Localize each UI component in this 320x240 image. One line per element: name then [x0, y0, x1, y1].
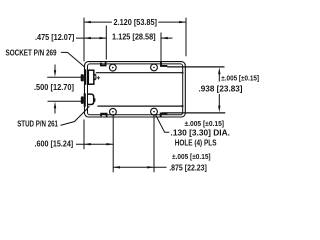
extension line left (x=84) top: [83, 18, 85, 62]
dimension 1.125 right arrow: [161, 37, 173, 39]
dimension .500 down arrow: [54, 65, 56, 77]
hole top-left: [109, 64, 116, 71]
extension line bottom-right hole: [153, 115, 155, 173]
extension line 1.125 right (x=161): [160, 33, 162, 67]
dimension .875 line with arrows: [113, 166, 166, 168]
dimension .938 lower arrow: [218, 94, 220, 112]
extension line .600 left (x=84) bottom: [83, 120, 85, 150]
svg-text:STUD P/N 261: STUD P/N 261: [17, 118, 58, 128]
extension line bottom-left hole: [112, 115, 114, 172]
extension line right (x=186): [185, 18, 187, 57]
leader socket label: [61, 52, 85, 66]
svg-text:±.005 [±0.15]: ±.005 [±0.15]: [172, 152, 211, 161]
dimension 2.120 line: [84, 21, 186, 23]
svg-text:.600 [15.24]: .600 [15.24]: [35, 138, 74, 148]
hole bottom-right: [151, 108, 158, 115]
dimension .500 up arrow: [54, 102, 56, 114]
body outer outline: [85, 62, 186, 117]
svg-text:.875 [22.23]: .875 [22.23]: [169, 163, 207, 173]
svg-text:.130 [3.30] DIA.: .130 [3.30] DIA.: [171, 128, 231, 138]
leader stud label: [61, 106, 90, 125]
dimension .938 top leader: [167, 66, 224, 68]
clip mark top-left: [101, 62, 106, 66]
dimension .938 bottom leader: [162, 112, 225, 114]
dimension .600 line with arrows: [76, 143, 113, 145]
stud P/N 261 part: [81, 93, 96, 106]
clip mark bottom-left: [101, 114, 107, 117]
svg-text:HOLE (4) PLS: HOLE (4) PLS: [175, 137, 217, 147]
wire interior top line: [96, 72, 183, 74]
dimension .938 upper arrow: [218, 67, 220, 81]
node interior bottom line right junction: [182, 105, 184, 107]
plus polarity mark: [97, 76, 100, 79]
extension line 1.125 left (x=106.3): [105, 26, 107, 60]
body inner outline: [88, 64, 183, 115]
svg-text:.938 [23.83]: .938 [23.83]: [199, 83, 243, 93]
node interior top line right junction: [182, 72, 184, 74]
dimension .500 bottom leader (stud centerline): [48, 100, 85, 102]
dimension .475 line with arrows: [76, 37, 106, 39]
dimension .500 top leader (socket centerline): [47, 76, 84, 78]
svg-text:.475 [12.07]: .475 [12.07]: [35, 32, 74, 42]
clip mark bottom-right: [161, 113, 168, 116]
svg-text:SOCKET P/N 269: SOCKET P/N 269: [6, 48, 57, 58]
hole bottom-left: [110, 108, 117, 115]
svg-text:.500 [12.70]: .500 [12.70]: [34, 82, 74, 92]
wire interior bottom line: [97, 105, 182, 107]
svg-text:1.125 [28.58]: 1.125 [28.58]: [112, 32, 156, 42]
leader .130 dia hole note: [155, 115, 169, 133]
socket P/N 269 part: [81, 69, 96, 85]
svg-text:2.120 [53.85]: 2.120 [53.85]: [114, 17, 158, 27]
clip mark top-right: [161, 62, 167, 66]
svg-text:±.005 [±0.15]: ±.005 [±0.15]: [221, 73, 259, 82]
hole top-right: [151, 64, 158, 71]
